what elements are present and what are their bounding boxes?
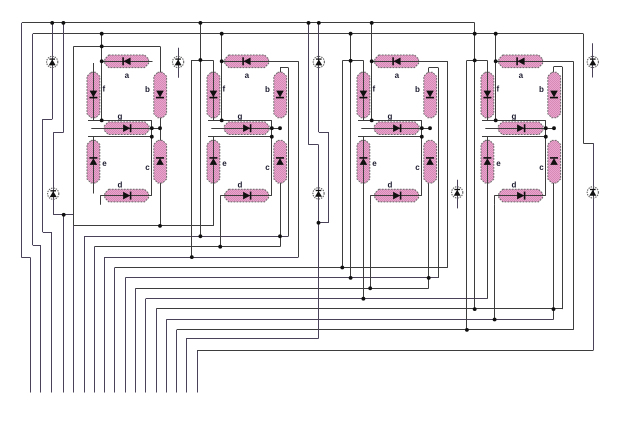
svg-text:b: b xyxy=(145,85,150,94)
svg-text:f: f xyxy=(496,85,499,94)
svg-text:d: d xyxy=(117,181,122,190)
svg-text:f: f xyxy=(222,85,225,94)
svg-text:c: c xyxy=(145,163,150,172)
svg-text:a: a xyxy=(395,71,400,80)
svg-text:e: e xyxy=(372,159,377,168)
svg-text:g: g xyxy=(117,112,122,121)
svg-text:c: c xyxy=(539,163,544,172)
svg-text:c: c xyxy=(415,163,420,172)
svg-text:g: g xyxy=(511,112,516,121)
svg-text:e: e xyxy=(496,159,501,168)
svg-text:a: a xyxy=(519,71,524,80)
svg-text:b: b xyxy=(265,85,270,94)
svg-text:f: f xyxy=(372,85,375,94)
svg-text:e: e xyxy=(102,159,107,168)
svg-text:b: b xyxy=(415,85,420,94)
svg-text:a: a xyxy=(245,71,250,80)
svg-text:d: d xyxy=(387,181,392,190)
svg-text:b: b xyxy=(539,85,544,94)
svg-text:d: d xyxy=(511,181,516,190)
svg-text:e: e xyxy=(222,159,227,168)
svg-text:d: d xyxy=(237,181,242,190)
svg-text:c: c xyxy=(265,163,270,172)
svg-text:a: a xyxy=(125,71,130,80)
svg-text:g: g xyxy=(387,112,392,121)
svg-text:g: g xyxy=(237,112,242,121)
svg-text:f: f xyxy=(102,85,105,94)
